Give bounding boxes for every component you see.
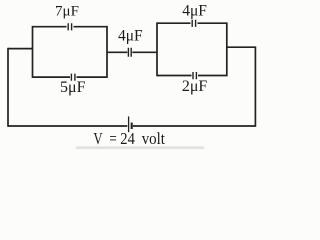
wire: left loop top side with gap for capacitor C1 <box>33 26 108 28</box>
wire: outer loop left side <box>7 48 9 127</box>
wire: left loop right side <box>106 26 108 78</box>
wire: left loop left side <box>32 26 34 78</box>
label V = 24 volt <box>93 129 165 148</box>
wire: middle link with gap for capacitor C3 <box>107 51 157 53</box>
svg-text:V: V <box>93 129 103 148</box>
wire: left lead from outer loop to left loop <box>8 48 33 50</box>
svg-text:7μF: 7μF <box>55 4 79 20</box>
capacitor C3 4uF plates <box>128 48 131 57</box>
capacitor C1 7uF plates <box>68 23 71 30</box>
svg-text:=: = <box>109 129 116 148</box>
battery V: long positive plate <box>128 116 130 132</box>
capacitor C4 4uF plates <box>192 20 195 27</box>
svg-text:2μF: 2μF <box>182 78 208 95</box>
capacitor C5 2uF plates <box>193 72 196 79</box>
svg-text:volt: volt <box>142 129 165 148</box>
wire: right loop bottom side with gap for capacitor C5 <box>157 75 227 77</box>
wire: right loop left side <box>156 22 158 76</box>
capacitor C2 5uF plates <box>71 74 75 81</box>
wire: right loop top side with gap for capacitor C4 <box>157 22 227 24</box>
wire: right loop right side <box>226 22 228 76</box>
battery V: short negative plate <box>131 123 133 129</box>
svg-text:4μF: 4μF <box>182 2 207 19</box>
wire: left loop bottom side with gap for capacitor C2 <box>33 76 108 78</box>
svg-text:4μF: 4μF <box>118 28 143 45</box>
wire: outer loop right side <box>254 46 256 126</box>
scan artifact streak under label <box>76 147 204 149</box>
wire: outer loop bottom with gap for battery <box>8 125 255 127</box>
svg-text:5μF: 5μF <box>60 79 86 96</box>
svg-text:24: 24 <box>120 129 135 148</box>
wire: right lead from right loop to outer loop <box>227 46 256 48</box>
